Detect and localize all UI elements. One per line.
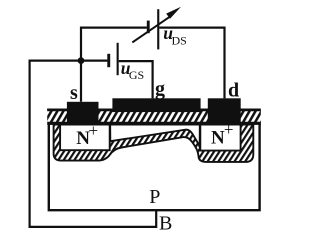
- wire top from uDS to drain corner: [159, 28, 224, 99]
- substrate outline: [49, 124, 260, 210]
- svg-text:GS: GS: [129, 68, 144, 82]
- wire left from node to uGS: [30, 59, 108, 61]
- wire left outer to bottom: [30, 60, 157, 227]
- oxide bottom line: [47, 122, 261, 125]
- wire uGS to gate: [119, 61, 153, 98]
- svg-text:s: s: [70, 82, 78, 104]
- N+ wells and channel hatched band: [54, 125, 254, 162]
- oxide layer hatch: [47, 109, 261, 125]
- oxide top line: [47, 109, 261, 112]
- source contact pad: [67, 102, 99, 125]
- svg-text:B: B: [159, 213, 172, 235]
- battery uGS short plate: [107, 54, 110, 67]
- battery uDS long plate: [157, 9, 159, 49]
- svg-text:+: +: [89, 121, 99, 140]
- svg-text:+: +: [224, 120, 234, 139]
- svg-text:P: P: [149, 186, 160, 208]
- svg-text:g: g: [155, 78, 165, 100]
- svg-text:DS: DS: [172, 33, 187, 47]
- svg-text:N: N: [211, 128, 225, 149]
- drain contact pad: [208, 98, 241, 125]
- battery uGS long plate: [117, 43, 119, 75]
- node junction dot: [78, 57, 85, 64]
- wire source vertical: [80, 27, 82, 102]
- gate electrode pad: [112, 98, 200, 112]
- wire top from source to uDS: [81, 27, 147, 29]
- svg-text:d: d: [228, 80, 239, 102]
- battery uDS short plate: [147, 21, 150, 34]
- uDS variable arrow: [132, 7, 181, 43]
